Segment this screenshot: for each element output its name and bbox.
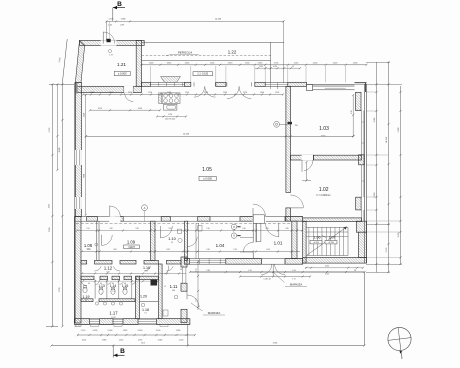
svg-text:2.625: 2.625 [185,62,190,64]
svg-text:PERGOLA: PERGOLA [178,51,193,55]
left dim small label [49,204,51,208]
svg-text:1.380: 1.380 [176,330,181,332]
door 103-102 [302,155,314,172]
interior vert dim 102 [302,161,311,182]
room label 1.10 [168,236,177,241]
svg-text:1.600: 1.600 [353,62,358,64]
svg-text:2.1 -0.150: 2.1 -0.150 [197,73,208,76]
svg-text:3.455: 3.455 [49,204,51,208]
room label 1.16 [143,266,150,270]
svg-text:1.51: 1.51 [196,268,198,271]
wall WC right [181,257,187,322]
wall stalls front [81,276,158,280]
svg-text:h = 2.600mm: h = 2.600mm [316,194,330,197]
svg-text:14.450: 14.450 [183,134,190,136]
svg-text:MARKIZA: MARKIZA [290,283,303,287]
svg-text:1.900: 1.900 [245,62,250,64]
svg-text:3.3: 3.3 [85,300,87,302]
svg-text:1.14: 1.14 [110,284,117,288]
fixture mop sink [164,104,177,110]
splayed bay top [161,77,181,83]
svg-text:5.46: 5.46 [172,290,175,292]
fixture 104 [198,226,202,232]
wall stair north [303,218,362,222]
partition 109-110 [151,221,156,260]
svg-text:8.85: 8.85 [129,247,132,249]
svg-text:B: B [120,348,125,355]
urinals 117 [95,302,122,305]
right pier 4 corner [356,221,366,232]
door 111 [164,266,168,274]
svg-text:2.110: 2.110 [82,339,86,341]
svg-text:2.750: 2.750 [274,62,279,64]
height label 1.02 [316,194,330,197]
fixtures 111 [163,295,178,316]
section marker B bottom [113,346,125,358]
wall 104-101 [253,221,256,258]
svg-text:3.05: 3.05 [113,249,116,251]
wall 104 left [185,221,188,260]
wall room 1.21 right [136,40,141,86]
svg-text:1.06: 1.06 [314,236,321,240]
label PERGOLA [166,51,199,57]
svg-text:1.150: 1.150 [185,92,189,94]
interior dim row 2 [89,108,161,112]
svg-text:1.02: 1.02 [319,187,329,193]
interior dim row below top wall [82,92,284,96]
svg-text:1.20: 1.20 [140,294,147,298]
wall top pier 3 [216,82,226,86]
room label 1.17 [109,310,118,315]
door 1.21-hall opening [124,86,133,102]
svg-text:1.170: 1.170 [109,19,114,21]
door 119 [81,281,87,286]
svg-text:4.135: 4.135 [325,266,329,268]
room label 1.08 [84,243,93,248]
svg-text:4.120: 4.120 [83,113,85,117]
svg-text:1.825: 1.825 [123,330,128,332]
svg-text:2.340: 2.340 [158,339,163,341]
svg-text:1.980: 1.980 [121,19,126,21]
svg-text:1.16: 1.16 [143,266,150,270]
corridor dim row [81,272,186,274]
door hall-101 [253,204,266,221]
room label 1.09 [127,240,136,245]
svg-text:1.15: 1.15 [122,284,129,288]
wall top pier 2 [185,82,191,86]
svg-text:1.60: 1.60 [242,228,245,230]
svg-text:1.08: 1.08 [84,243,93,248]
stair treads [306,227,348,255]
fixture 119 [83,286,87,293]
svg-text:1.920: 1.920 [223,92,227,94]
svg-text:-0.750: -0.750 [328,242,335,244]
svg-text:3.245: 3.245 [374,118,376,123]
stall partitions [95,280,132,299]
elevation box 1.21 [114,71,130,75]
dim row right mini [255,66,301,69]
svg-text:18.4: 18.4 [141,342,145,344]
axis circle A [142,205,148,222]
sill marks below WC wall [75,324,168,326]
svg-text:1.800: 1.800 [149,62,154,64]
room label 1.04 [216,243,225,248]
svg-text:1.350: 1.350 [210,62,215,64]
svg-text:2.210: 2.210 [128,92,132,94]
corner NE wall [307,83,367,92]
svg-text:2.850: 2.850 [374,193,376,198]
axis circle D on wall [274,121,298,127]
room label 1.05 [202,167,212,173]
svg-text:2.935: 2.935 [273,342,278,344]
svg-text:1.19: 1.19 [83,295,90,299]
svg-text:± 0.000: ± 0.000 [203,176,212,180]
svg-text:1.04: 1.04 [216,243,225,248]
toilets [99,287,127,294]
partition 117-118 [136,276,140,319]
svg-text:B: B [117,1,122,8]
interior vert dim 103 [351,94,355,137]
svg-text:1.12: 1.12 [104,266,113,271]
wall top east jog [307,85,313,91]
svg-text:2.400: 2.400 [313,62,318,64]
svg-text:± 0.000: ± 0.000 [118,72,127,76]
wall WC bottom [75,319,190,325]
svg-text:2.425: 2.425 [333,62,338,64]
svg-text:1.8: 1.8 [354,270,356,272]
right window 3 [362,210,364,221]
corridor doors [95,266,174,271]
svg-text:2.55: 2.55 [168,228,171,230]
left wall window 2 [75,197,82,209]
shower 120 [151,279,158,285]
wall WC left [75,217,82,323]
svg-text:1.790: 1.790 [148,92,152,94]
svg-text:7.700: 7.700 [59,288,61,293]
svg-text:0.98: 0.98 [120,24,124,26]
svg-text:-0.125: -0.125 [313,242,320,244]
wall right outer line [365,84,367,263]
svg-text:2.62: 2.62 [166,249,169,251]
dimension line bottom with ticks [77,334,196,341]
svg-text:0.900: 0.900 [108,330,113,332]
svg-text:2.9: 2.9 [145,271,147,273]
north compass [388,327,411,359]
door hall-112 [109,206,120,222]
svg-text:0.900: 0.900 [138,330,143,332]
dimension line top overall [105,19,284,84]
room label 1.06 1.07 [310,236,337,244]
right window 2 [362,165,364,197]
svg-text:2.716: 2.716 [49,128,51,133]
svg-text:1.44: 1.44 [108,24,112,26]
dimension row above top wall [140,62,367,66]
door top D1 double [194,82,216,97]
svg-text:1.900: 1.900 [398,128,400,133]
svg-text:1.3: 1.3 [112,291,114,293]
door hall-102 [291,195,304,208]
extension lines above wall [150,66,345,82]
svg-text:1.105: 1.105 [275,92,279,94]
right pier 3 [356,197,361,210]
dim row below hall wall [76,228,303,231]
svg-text:17.05: 17.05 [111,317,115,319]
wall left gray base [74,83,76,323]
svg-text:150: 150 [295,125,298,127]
wall corridor 112 top [81,260,181,264]
window glazing top W2 [265,82,288,89]
left wall window 1 [75,150,82,165]
svg-text:1.17: 1.17 [109,310,118,315]
wall top main west part [142,82,151,86]
svg-text:1.980: 1.980 [102,339,107,341]
wall top pier 5 [288,82,307,86]
svg-text:4.56: 4.56 [325,274,329,276]
dim row above terrace [189,270,366,276]
room label 1.19 [83,295,90,299]
svg-text:1.18 1.18: 1.18 1.18 [263,278,270,280]
svg-text:2.30: 2.30 [135,228,138,230]
svg-text:1.250: 1.250 [179,339,184,341]
svg-text:7.180: 7.180 [49,228,51,233]
room label 1.02 [319,187,329,193]
svg-text:1.310: 1.310 [119,339,124,341]
svg-text:2.145: 2.145 [204,92,208,94]
wall room 1.21 bottom [75,86,141,92]
misc small labels WC block [85,242,182,315]
window glazing top W1 [150,82,184,86]
svg-text:1.21: 1.21 [117,62,126,67]
svg-text:3.825: 3.825 [167,62,172,64]
elevation box pergola [193,72,213,76]
svg-text:1.2: 1.2 [164,286,166,288]
wall 117 top [81,299,135,302]
partition 108-109 [95,221,99,260]
closet 101 [240,223,261,241]
stair diagonal [307,227,347,256]
svg-text:4.30: 4.30 [86,249,89,251]
partition 120-118 [140,301,159,303]
wall hall-102 lower [286,208,291,221]
svg-text:0.825: 0.825 [258,62,263,64]
svg-text:0.95: 0.95 [285,228,288,230]
right window 1 [362,111,364,155]
svg-text:1.07: 1.07 [329,236,336,240]
svg-text:2.49: 2.49 [206,249,209,251]
room label 1.11 [170,284,179,289]
room labels stalls [98,284,128,288]
svg-text:1.18: 1.18 [142,308,149,312]
door 109 [102,235,113,246]
door WC-terrace [187,291,199,307]
room label 1.03 [319,126,329,132]
wall room 1.21 left slanted [75,40,84,82]
stall doors [95,280,135,285]
interior vert dim right of 190 [196,260,200,310]
wall stair bottom [303,257,367,263]
partition 118-111 [159,264,163,319]
door 110-104 [188,237,198,247]
wall hall bottom [75,217,303,222]
wall left hall [75,82,81,216]
elevation box 1.09 [124,245,140,249]
door symbol circle 1.21 [109,50,113,57]
stair dim row below [305,266,364,269]
svg-text:4.35: 4.35 [351,110,353,113]
right pier 2 [359,155,364,165]
fixture block sinks [159,93,180,104]
terrace outline [188,272,364,346]
interior dim row bottom rooms [81,249,300,252]
svg-text:5.048: 5.048 [90,92,94,94]
elevation box 1.05 [199,176,216,180]
door 110 [161,226,173,238]
stall dim row [82,280,159,285]
room label 1.18 [142,308,149,312]
door D1.21 opening [101,21,117,46]
room label 1.12 [104,266,113,271]
svg-text:3.750: 3.750 [98,108,102,110]
wall top pier 4 [255,82,265,86]
wall 101-stair [292,221,297,258]
wall room 1.21 top [80,40,145,45]
pergola outline 1.22 [142,42,285,83]
interior long dim line [85,134,355,138]
wall bottom middle [185,259,303,265]
window bottom 104 [190,259,226,265]
svg-text:2.125: 2.125 [386,248,388,253]
pier above wall [253,215,264,224]
door top D2 double [227,82,251,98]
door 101-104 [240,242,253,252]
door 101 top arc [266,223,279,236]
svg-text:1.11: 1.11 [170,284,179,289]
svg-text:2.150: 2.150 [243,92,247,94]
svg-text:0.60 0.95 0.60: 0.60 0.95 0.60 [165,119,175,121]
wall stair right [359,232,367,257]
marker circles 104 [231,224,240,238]
svg-text:1.525: 1.525 [294,62,299,64]
svg-text:1.03: 1.03 [319,126,329,132]
dim row under entrance [239,275,311,280]
fixture 110 [177,229,182,242]
svg-text:1.09: 1.09 [127,240,136,245]
label MARKIZA 1 [274,273,308,287]
plot boundary line left [59,39,67,326]
window glazing top E multi [313,85,355,90]
svg-text:3.2: 3.2 [171,242,173,244]
svg-text:3.44: 3.44 [266,249,269,251]
svg-text:0.760: 0.760 [138,108,142,110]
svg-text:1.20: 1.20 [248,270,251,272]
svg-text:1.06: 1.06 [292,270,295,272]
shaft lines 104 left [196,223,199,259]
svg-text:4.999: 4.999 [59,148,61,153]
svg-text:7.880: 7.880 [83,174,85,178]
wall stair left [303,221,306,263]
svg-text:14.450: 14.450 [215,19,222,21]
svg-text:2.10: 2.10 [206,228,209,230]
room label 1.20 [140,294,147,298]
svg-text:1.5: 1.5 [292,66,294,68]
svg-text:1.01: 1.01 [274,240,283,245]
WC bottom windows [90,320,157,327]
svg-text:1.77: 1.77 [292,278,295,280]
svg-text:2.100: 2.100 [156,330,161,332]
room label 1.01 [274,240,283,245]
svg-text:1.22: 1.22 [228,49,237,54]
svg-text:1.13: 1.13 [98,284,105,288]
area label 1.17 [111,317,115,319]
svg-text:A: A [144,206,146,210]
svg-text:2.38: 2.38 [206,270,209,272]
svg-text:1.430: 1.430 [260,92,264,94]
room label 1.21 [117,62,126,67]
label MARKIZA 2 [191,303,225,315]
svg-text:3.350: 3.350 [398,233,400,238]
wall 103-102 [291,155,362,160]
entrance double door [261,259,285,276]
dimension row bottom labels [81,330,181,332]
svg-text:1.151: 1.151 [109,92,113,94]
svg-text:1.790: 1.790 [168,114,172,116]
fixture 118 sink [141,303,145,307]
area label 1.03 [321,136,326,138]
dimension lines right side [366,61,402,273]
svg-text:1.10: 1.10 [168,236,177,241]
section marker B top [113,1,125,21]
svg-text:14.250: 14.250 [386,137,388,143]
wall hall-103 vertical [286,86,291,192]
svg-text:2.870: 2.870 [228,62,233,64]
svg-text:2.30: 2.30 [109,228,112,230]
svg-text:6.25: 6.25 [106,272,109,274]
svg-text:1.925: 1.925 [138,339,143,341]
svg-text:1.9: 1.9 [144,313,146,315]
right pier 1 [356,92,361,110]
svg-text:0.9: 0.9 [88,283,90,285]
svg-text:1.710: 1.710 [81,330,86,332]
dimension line left outer [46,83,74,327]
interior left vertical dim [83,94,87,216]
svg-text:MARKIZA: MARKIZA [208,311,221,315]
dimension line bottom overall [50,342,365,346]
dashed canopy line [76,222,291,224]
svg-text:2.16: 2.16 [233,249,236,251]
svg-text:1.875: 1.875 [259,66,263,68]
fixture dim row [156,114,187,120]
svg-text:0.9: 0.9 [180,269,182,271]
stair upper landing lines [306,232,348,237]
svg-text:1.05: 1.05 [202,167,212,173]
svg-text:1.79: 1.79 [109,55,112,57]
svg-text:0.900: 0.900 [93,330,98,332]
svg-text:0.750: 0.750 [273,66,277,68]
svg-text:1.55: 1.55 [86,228,89,230]
room label 1.22 [228,49,237,54]
